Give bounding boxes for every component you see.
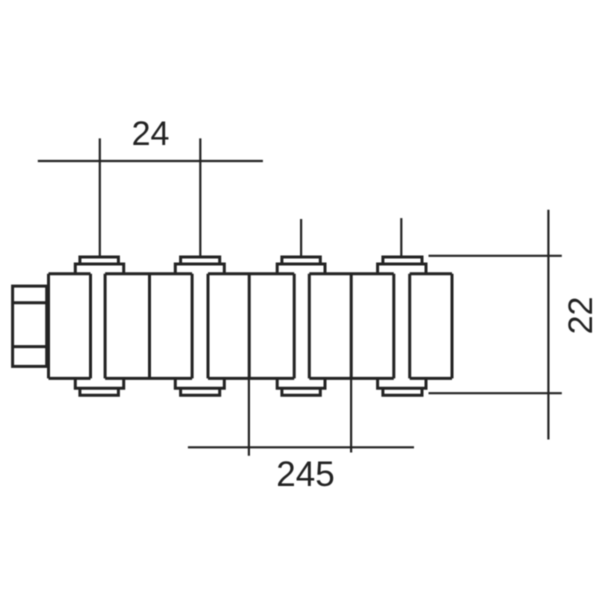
dimension 22: top extension line <box>429 255 562 257</box>
dimension 24: dimension line <box>38 160 263 162</box>
dimension 22: dimension line <box>547 210 549 440</box>
svg-text:24: 24 <box>132 115 170 153</box>
hex nut (left end cap side view) <box>13 286 47 366</box>
dimension 245: dimension line <box>188 446 414 448</box>
connector P4 centerline stub <box>400 218 402 257</box>
connector P2 web <box>192 274 208 379</box>
dimension 22: bottom extension line <box>429 392 562 394</box>
dimension 24: extension line at connector P2 centerline <box>199 138 201 257</box>
body outline (long block, edges broken at connector webs) <box>49 274 453 379</box>
connector P2 top cap <box>181 257 220 264</box>
connector P2 top flange <box>175 264 224 274</box>
connector P4 web <box>394 274 410 379</box>
connector P4 top cap <box>383 257 422 264</box>
connector P3 bottom flange <box>277 378 325 388</box>
connector P3 top flange <box>277 264 325 274</box>
connector P1 bottom flange <box>75 378 123 388</box>
connector P3 centerline stub <box>300 219 302 257</box>
svg-text:22: 22 <box>562 297 600 335</box>
connector P4 bottom cap <box>383 388 422 395</box>
dimension 245: left extension line <box>248 378 250 455</box>
svg-text:245: 245 <box>276 455 334 494</box>
connector P3 top cap <box>282 257 320 264</box>
connector P1 web <box>91 274 106 379</box>
connector P2 bottom flange <box>175 378 224 388</box>
dimension 245: right extension line <box>350 378 352 452</box>
body divider 2 <box>248 274 251 379</box>
body divider 3 <box>350 274 353 379</box>
connector P4 top flange <box>378 264 426 274</box>
body divider 1 <box>148 274 151 379</box>
dimension 24: extension line at connector P1 centerline <box>99 138 101 257</box>
connector P1 bottom cap <box>80 388 119 395</box>
connector P1 top cap <box>80 257 119 264</box>
connector P2 bottom cap <box>181 388 220 395</box>
connector P1 top flange <box>75 264 123 274</box>
connector P4 bottom flange <box>378 378 426 388</box>
connector P3 web <box>294 274 309 379</box>
connector P3 bottom cap <box>282 388 320 395</box>
